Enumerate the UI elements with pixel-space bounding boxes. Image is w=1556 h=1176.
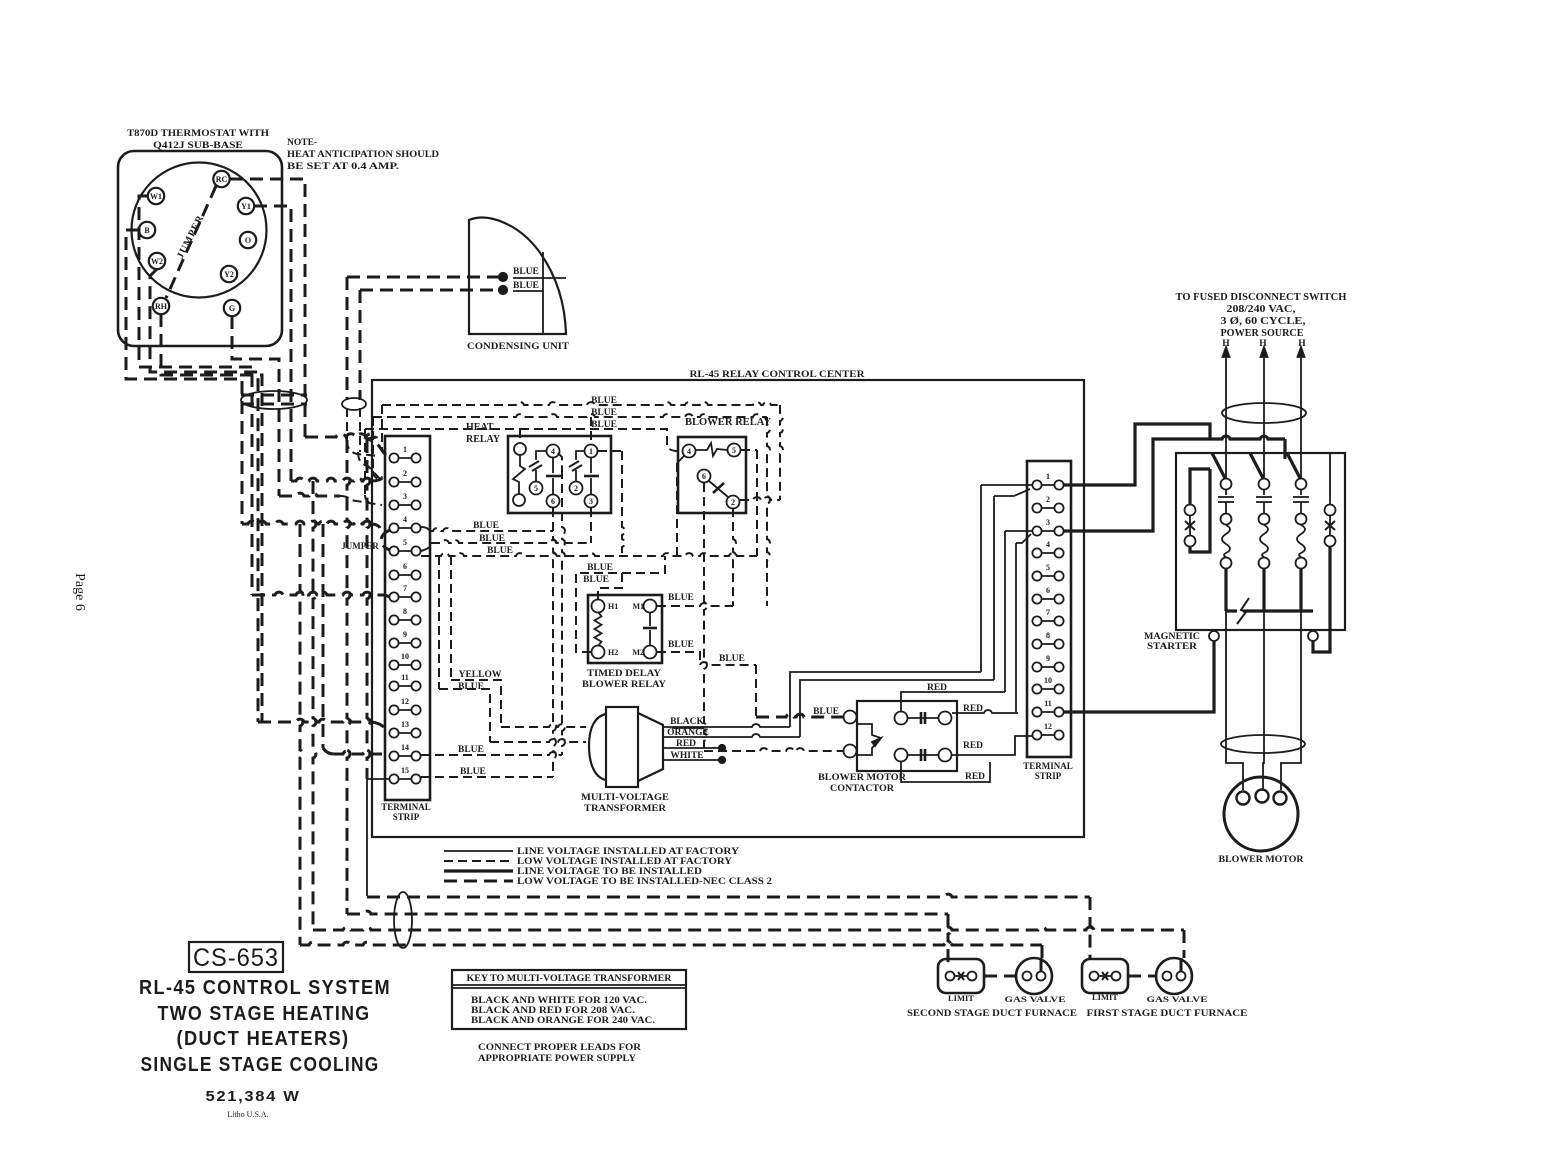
svg-text:10: 10 [1044, 676, 1052, 685]
svg-text:BLUE: BLUE [458, 745, 484, 755]
blue wire M1 right [657, 603, 733, 606]
svg-text:W2: W2 [151, 257, 163, 266]
terminal strip right box [1027, 461, 1071, 757]
heavy wire t11 to starter [1064, 641, 1214, 712]
svg-text:H1: H1 [608, 602, 618, 611]
blower relay 2 wire right [740, 497, 780, 500]
svg-text:1: 1 [403, 445, 407, 454]
thermostat T870D box [118, 151, 282, 346]
svg-text:3: 3 [589, 497, 593, 506]
left terminal 4 [394, 527, 416, 529]
svg-text:RED: RED [963, 704, 983, 714]
riser x553 heat relay 6 to t15 [553, 508, 556, 777]
conduit ellipse condensing [342, 398, 366, 410]
starter pole 2 [1250, 453, 1264, 480]
contactor coil arrow [857, 724, 881, 755]
jumper wire RC-RH [166, 186, 216, 298]
svg-text:STARTER: STARTER [1147, 642, 1197, 652]
svg-text:CS-653: CS-653 [193, 944, 279, 972]
starter pole 2 lower [1262, 569, 1265, 611]
blue wire t14 [421, 752, 562, 755]
thermostat terminal W1 [148, 188, 164, 204]
svg-text:LIMIT: LIMIT [948, 993, 974, 1003]
svg-text:BLUE: BLUE [591, 408, 617, 418]
heat relay 4 wire down [558, 453, 562, 470]
black wire [663, 724, 790, 727]
heat relay 1 top stub [590, 417, 592, 444]
svg-text:MULTI-VOLTAGE: MULTI-VOLTAGE [581, 793, 669, 803]
blower relay 6-2 contact [709, 481, 728, 497]
starter bus to box bottom [1263, 611, 1265, 630]
svg-text:NOTE-: NOTE- [287, 138, 317, 148]
svg-text:Y1: Y1 [241, 202, 251, 211]
condensing unit inner line [542, 252, 544, 334]
timed delay H2 [592, 646, 605, 659]
right terminal 10 [1037, 688, 1059, 690]
timed delay relay box [588, 595, 662, 663]
bundle wire to terminal 13 [258, 719, 372, 722]
wire RH to terminal 14 [161, 314, 262, 722]
blower relay contact 4 [683, 445, 696, 458]
svg-text:12: 12 [1044, 722, 1052, 731]
thermostat dial circle [132, 163, 267, 298]
gas valve first stage [1156, 958, 1192, 994]
wire Y1 down to terminal 2 [254, 206, 291, 481]
svg-text:8: 8 [1046, 631, 1050, 640]
heat relay box [508, 436, 611, 513]
gas valve second stage [1016, 958, 1052, 994]
condensing wire into terminal 1 [347, 440, 380, 456]
blower relay contact 5 [728, 444, 741, 457]
timed delay heater zigzag [595, 612, 602, 646]
heat relay contact 3 [585, 495, 598, 508]
hook wire into terminal 2 [372, 417, 374, 471]
svg-text:Y2: Y2 [224, 270, 234, 279]
svg-text:3: 3 [403, 492, 407, 501]
heat relay coil [514, 443, 526, 455]
right terminal 2 [1037, 507, 1059, 509]
left terminal 9 [394, 642, 416, 644]
svg-text:5: 5 [403, 538, 407, 547]
svg-text:TERMINAL: TERMINAL [1023, 761, 1073, 771]
thermostat terminal Y1 [238, 198, 254, 214]
svg-text:TIMED DELAY: TIMED DELAY [587, 669, 661, 679]
blue wire into contactor [756, 714, 844, 717]
thermostat terminal RH [153, 298, 169, 314]
svg-text:RL-45 RELAY CONTROL CENTER: RL-45 RELAY CONTROL CENTER [690, 370, 865, 380]
blower relay 4 wire down left [677, 456, 684, 463]
heat relay coil top stub [519, 429, 521, 443]
wire into terminal 3 [340, 496, 382, 505]
condensing unit outline [469, 218, 566, 334]
svg-text:BLUE: BLUE [460, 767, 486, 777]
svg-text:STRIP: STRIP [393, 812, 420, 822]
bundle wire to terminal 7 [252, 592, 382, 595]
phase arrow 1 [1225, 352, 1227, 375]
svg-text:1: 1 [589, 447, 593, 456]
riser wire x347 to bottom bus [347, 440, 350, 914]
svg-text:KEY TO MULTI-VOLTAGE TRANSFORM: KEY TO MULTI-VOLTAGE TRANSFORMER [467, 974, 672, 984]
svg-text:BLACK AND WHITE FOR 120 VAC.: BLACK AND WHITE FOR 120 VAC. [471, 995, 647, 1005]
wire RC down to terminal 1 [230, 179, 305, 437]
limit switch first stage [1082, 959, 1128, 993]
thermostat terminal G [224, 300, 240, 316]
wire into terminal 13 [372, 722, 386, 731]
svg-text:Litho U.S.A.: Litho U.S.A. [227, 1110, 268, 1119]
heat relay 1 wire right [598, 450, 622, 452]
svg-text:5: 5 [732, 446, 736, 455]
gas valve first wire top [1180, 958, 1183, 971]
svg-text:2: 2 [1046, 495, 1050, 504]
svg-text:STRIP: STRIP [1035, 771, 1062, 781]
riser red to right t3 [1004, 531, 1006, 692]
left terminal 2 [394, 481, 416, 483]
svg-text:RED: RED [965, 772, 985, 782]
svg-text:11: 11 [401, 673, 409, 682]
right terminal 4 [1037, 552, 1059, 554]
thermostat terminal O [240, 232, 256, 248]
svg-text:BLUE: BLUE [668, 640, 694, 650]
left terminal 1 [394, 457, 416, 459]
svg-text:BLACK AND ORANGE FOR 240 VAC.: BLACK AND ORANGE FOR 240 VAC. [471, 1015, 655, 1025]
right terminal 6 [1037, 598, 1059, 600]
legend line voltage to install [444, 869, 513, 872]
svg-text:5: 5 [1046, 563, 1050, 572]
svg-text:3: 3 [1046, 518, 1050, 527]
right terminal 11 [1037, 711, 1059, 713]
starter pole 1 [1212, 453, 1226, 480]
red wire contactor to t3 [901, 692, 1005, 711]
svg-text:TERMINAL: TERMINAL [381, 802, 431, 812]
svg-text:6: 6 [403, 562, 407, 571]
svg-text:14: 14 [401, 743, 409, 752]
blower relay contact 6 [698, 470, 711, 483]
heavy wire t3 to starter [1064, 439, 1210, 531]
svg-text:LINE VOLTAGE TO BE INSTALLED: LINE VOLTAGE TO BE INSTALLED [517, 866, 703, 876]
svg-text:BLUE: BLUE [479, 534, 505, 544]
svg-text:Page 6: Page 6 [72, 573, 87, 611]
svg-text:BLUE: BLUE [813, 707, 839, 717]
hook wire into terminal 3 [364, 429, 366, 495]
left terminal 7 [394, 596, 416, 598]
timed delay M contact [649, 612, 651, 626]
terminal strip left box [385, 436, 430, 800]
phase arrow 2 [1263, 352, 1265, 375]
left terminal 12 [394, 709, 416, 711]
heat relay contact 4 [547, 445, 560, 458]
contactor left terminal bottom [844, 745, 857, 758]
bundle wire to terminal 14 [323, 748, 334, 754]
svg-text:WHITE: WHITE [670, 751, 703, 761]
svg-text:1: 1 [1046, 472, 1050, 481]
starter left fuse wires [1190, 469, 1210, 504]
bundle wire to terminal 3 [279, 493, 340, 496]
svg-text:4: 4 [1046, 540, 1050, 549]
hook wire into terminal 1 [381, 405, 383, 448]
svg-text:7: 7 [1046, 608, 1050, 617]
svg-text:LOW VOLTAGE TO BE INSTALLED-NE: LOW VOLTAGE TO BE INSTALLED-NEC CLASS 2 [517, 876, 773, 886]
svg-text:8: 8 [403, 607, 407, 616]
wire t15 left down [367, 778, 389, 780]
svg-text:BLUE: BLUE [473, 521, 499, 531]
limit1 to gas valve wire [1128, 975, 1156, 978]
blue wire t4 to heat relay 6 [421, 527, 429, 530]
motor feed lines [1226, 630, 1243, 790]
svg-text:HEAT ANTICIPATION SHOULD: HEAT ANTICIPATION SHOULD [287, 150, 439, 160]
svg-text:521,384 W: 521,384 W [206, 1088, 301, 1105]
orange wire riser [800, 680, 994, 737]
blue riser right 1 [780, 405, 783, 500]
svg-text:12: 12 [401, 697, 409, 706]
svg-text:BLACK: BLACK [670, 717, 704, 727]
riser to terminal 14 [322, 524, 325, 748]
svg-text:3 Ø, 60 CYCLE,: 3 Ø, 60 CYCLE, [1221, 316, 1307, 327]
starter pole 3 lower [1299, 569, 1302, 611]
riser wire x313 to bottom bus [313, 481, 316, 930]
blower relay 5 wire right [741, 449, 757, 451]
svg-text:6: 6 [1046, 586, 1050, 595]
blue wire top3 to blower relay 4 [520, 429, 682, 451]
svg-text:SECOND STAGE DUCT FURNACE: SECOND STAGE DUCT FURNACE [907, 1008, 1077, 1018]
blue riser right 2 [767, 417, 770, 606]
svg-text:CONTACTOR: CONTACTOR [830, 784, 894, 794]
svg-text:W1: W1 [150, 192, 162, 201]
svg-text:T870D THERMOSTAT WITH: T870D THERMOSTAT WITH [127, 129, 270, 139]
svg-text:BE SET AT 0.4 AMP.: BE SET AT 0.4 AMP. [287, 162, 399, 172]
wire into terminal 4 [370, 524, 380, 528]
svg-text:ORANGE: ORANGE [667, 728, 709, 738]
bundle wire to terminal 2 [291, 478, 371, 481]
blue wire to transformer [438, 556, 440, 689]
red wire bottom loop [901, 762, 990, 782]
blue wire contactor bottom [704, 748, 844, 751]
svg-text:4: 4 [403, 515, 407, 524]
left terminal 14 [394, 755, 416, 757]
svg-text:GAS VALVE: GAS VALVE [1005, 994, 1066, 1004]
svg-text:POWER SOURCE: POWER SOURCE [1221, 328, 1304, 339]
blue wire H1 up [598, 573, 622, 600]
contactor contact bottom [895, 749, 908, 762]
left terminal 8 [394, 619, 416, 621]
red wire bottom contact to t12 [952, 736, 1032, 755]
svg-text:YELLOW: YELLOW [459, 670, 502, 680]
svg-text:9: 9 [403, 630, 407, 639]
blue wire top 1 [382, 402, 780, 405]
svg-text:RH: RH [155, 302, 168, 311]
bundle wire to terminal 1 [305, 434, 389, 456]
blower relay contact 2 [727, 496, 740, 509]
blue wire top 2 [373, 414, 767, 417]
left terminal 10 [394, 664, 416, 666]
right terminal 12 [1037, 734, 1059, 736]
svg-text:BLUE: BLUE [591, 420, 617, 430]
heat relay contact 6 [547, 495, 560, 508]
thermostat terminal Y2 [221, 266, 237, 282]
svg-text:6: 6 [551, 497, 555, 506]
red wire top contact to t11 [952, 710, 1018, 713]
svg-text:O: O [245, 236, 251, 245]
legend line voltage factory [444, 850, 513, 852]
black wire riser [790, 672, 981, 727]
limit switch second stage [938, 959, 984, 993]
wire G to terminal 3 [232, 316, 279, 496]
blue wire top 3 [365, 428, 520, 430]
bus wire L4 [300, 942, 1042, 945]
heat relay contacts 1-3 bar [590, 458, 592, 473]
bundle wire to terminal 4 [242, 521, 371, 524]
starter pole 1 lower [1224, 569, 1227, 611]
bus wire L1 [367, 894, 1090, 897]
RL-45 relay control center box [372, 380, 1084, 837]
svg-text:RC: RC [216, 175, 228, 184]
svg-text:LINE VOLTAGE INSTALLED AT FACT: LINE VOLTAGE INSTALLED AT FACTORY [517, 846, 740, 856]
gas valve wire top [1040, 958, 1043, 971]
svg-text:RED: RED [676, 739, 696, 749]
svg-text:TO FUSED DISCONNECT SWITCH: TO FUSED DISCONNECT SWITCH [1176, 292, 1347, 303]
phase line 1 [1225, 375, 1227, 478]
svg-text:BLOWER RELAY: BLOWER RELAY [582, 680, 666, 690]
svg-text:CONNECT PROPER LEADS FOR: CONNECT PROPER LEADS FOR [478, 1043, 641, 1053]
svg-text:2: 2 [731, 498, 735, 507]
starter bottom bus [1226, 609, 1237, 612]
starter left fuse [1185, 505, 1196, 516]
timed delay H1 [592, 600, 605, 613]
heat relay contact 2 [570, 482, 583, 495]
blower motor circle [1224, 777, 1298, 851]
svg-text:H: H [1298, 339, 1306, 349]
right terminal 7 [1037, 620, 1059, 622]
svg-text:2: 2 [574, 484, 578, 493]
svg-text:TWO STAGE HEATING: TWO STAGE HEATING [158, 1003, 371, 1025]
svg-text:9: 9 [1046, 654, 1050, 663]
svg-text:BLOWER RELAY: BLOWER RELAY [685, 417, 772, 428]
blower relay 2 wire down [733, 508, 736, 606]
svg-text:HEAT: HEAT [466, 422, 494, 433]
right terminal 3 [1037, 530, 1059, 532]
svg-text:2: 2 [403, 469, 407, 478]
wire blue lower to condensing [360, 289, 500, 292]
svg-text:208/240 VAC,: 208/240 VAC, [1227, 304, 1297, 315]
svg-text:BLUE: BLUE [513, 281, 539, 291]
wire B to terminal 4 [126, 230, 242, 524]
bundle line a [241, 394, 307, 397]
heat relay contact 5 [530, 482, 543, 495]
heavy wire t1 to starter [1064, 424, 1210, 485]
svg-text:M1: M1 [632, 602, 644, 611]
svg-text:13: 13 [401, 720, 409, 729]
contactor contact top [895, 712, 908, 725]
svg-text:(DUCT HEATERS): (DUCT HEATERS) [177, 1028, 350, 1050]
limit to gas valve wire [984, 975, 1016, 978]
wire W2 to terminal 13 [150, 269, 258, 722]
wire into terminal 7 [382, 595, 389, 597]
svg-text:BLUE: BLUE [487, 546, 513, 556]
svg-text:4: 4 [687, 447, 691, 456]
blue wire H2 left up [576, 556, 665, 652]
key to transformer box [452, 970, 686, 1029]
svg-text:APPROPRIATE POWER SUPPLY: APPROPRIATE POWER SUPPLY [478, 1054, 636, 1064]
svg-text:BLUE: BLUE [668, 593, 694, 603]
svg-text:FIRST STAGE DUCT FURNACE: FIRST STAGE DUCT FURNACE [1087, 1008, 1248, 1018]
legend low voltage to install [444, 880, 513, 883]
riser to right t1 [980, 485, 982, 672]
heavy starter bus [1210, 436, 1285, 439]
svg-text:BLUE: BLUE [719, 654, 745, 664]
right terminal 5 [1037, 575, 1059, 577]
yellow wire to transformer [450, 556, 452, 680]
svg-text:4: 4 [551, 447, 555, 456]
CS-653 box [189, 942, 283, 972]
svg-text:BLUE: BLUE [513, 267, 539, 277]
conduit ellipse left bundle [241, 391, 307, 409]
svg-text:BLUE: BLUE [458, 682, 484, 692]
svg-text:B: B [144, 226, 150, 235]
thermostat terminal B [139, 222, 155, 238]
jumper arc terminal 4 to 5 [381, 530, 390, 550]
starter right fuse wires [1329, 453, 1331, 504]
wire blue upper to condensing [347, 276, 500, 279]
blue wire M2 right [657, 652, 700, 665]
left terminal 13 [394, 732, 416, 734]
svg-text:GAS VALVE: GAS VALVE [1147, 994, 1208, 1004]
svg-text:5: 5 [534, 484, 538, 493]
phase line 2 [1263, 375, 1265, 478]
heat relay contact 1 [585, 445, 598, 458]
blower relay switch blade [696, 443, 727, 456]
phase line 3 [1300, 375, 1302, 478]
white wire [663, 759, 719, 761]
heat relay moving contact 2 [576, 451, 585, 460]
svg-text:6: 6 [702, 472, 706, 481]
svg-text:TRANSFORMER: TRANSFORMER [584, 804, 666, 814]
svg-text:MAGNETIC: MAGNETIC [1144, 632, 1200, 642]
left terminal 11 [394, 685, 416, 687]
left terminal 5 [394, 550, 416, 552]
right terminal 1 [1037, 484, 1059, 486]
conduit ellipse motor [1221, 735, 1305, 753]
bus wire L2 [347, 911, 948, 914]
bus wire L3 [313, 927, 1184, 930]
svg-text:RELAY: RELAY [466, 434, 501, 445]
blower motor contactor box [857, 701, 957, 771]
svg-text:CONDENSING UNIT: CONDENSING UNIT [467, 342, 570, 352]
starter right fuse [1325, 505, 1336, 516]
orange wire [663, 734, 800, 737]
timed delay M2 [644, 646, 657, 659]
svg-text:BLUE: BLUE [591, 396, 617, 406]
svg-text:LOW VOLTAGE INSTALLED AT FACTO: LOW VOLTAGE INSTALLED AT FACTORY [517, 856, 733, 866]
blue wire to contactor [700, 662, 756, 665]
svg-text:G: G [229, 304, 235, 313]
timed delay M1 [644, 600, 657, 613]
svg-text:BLUE: BLUE [583, 575, 609, 585]
svg-text:BLUE: BLUE [587, 563, 613, 573]
svg-text:10: 10 [401, 652, 409, 661]
motor terminals [1237, 792, 1250, 805]
svg-text:15: 15 [401, 766, 409, 775]
svg-text:RL-45 CONTROL SYSTEM: RL-45 CONTROL SYSTEM [139, 977, 391, 999]
right terminal 8 [1037, 643, 1059, 645]
starter pole 3 [1287, 453, 1301, 480]
svg-text:LIMIT: LIMIT [1092, 992, 1118, 1002]
blower relay 6 wire down [704, 483, 707, 751]
red wire [663, 747, 719, 749]
starter interlock circles [1209, 631, 1219, 641]
riser wire x300 to bottom bus [300, 524, 303, 945]
left terminal 3 [394, 504, 416, 506]
condensing wire into terminal 2 [358, 452, 380, 479]
heat relay contacts 4-6 bar [552, 458, 554, 473]
